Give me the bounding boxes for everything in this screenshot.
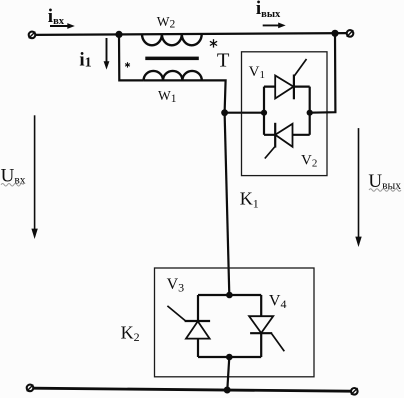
node C junction dot [221, 109, 228, 116]
thyristor V1 [275, 59, 306, 99]
wire K1 loop right vertical [309, 87, 311, 135]
node dot bottom rail [224, 387, 231, 394]
transformer core T [145, 57, 199, 61]
wire K2 loop left vertical [197, 295, 199, 357]
wire K1 loop right to top rail [310, 33, 336, 113]
terminal X4 bottom-right [351, 388, 358, 395]
thyristor V4 [249, 316, 284, 351]
terminal X2 top-right [347, 30, 354, 37]
winding w1 [144, 71, 202, 81]
node B junction dot [331, 30, 338, 37]
wire top rail [36, 33, 347, 35]
wire K1 loop bottom branch [264, 134, 310, 136]
current arrow i_vyx [263, 23, 286, 29]
wire K2 loop bottom branch [198, 356, 261, 358]
node dot K1 loop left [261, 110, 267, 116]
voltage arrow U_vyx [355, 128, 361, 247]
svg-text:T: T [217, 49, 230, 71]
wire mid vertical C to K2 [225, 113, 230, 295]
wire left vertical to w1 [119, 34, 144, 80]
squiggle under U_vyx [369, 189, 401, 192]
wire bottom rail [34, 388, 351, 391]
node dot K2 bottom [226, 354, 233, 361]
squiggle under U_vx [1, 184, 23, 187]
terminal X1 top-left [29, 32, 36, 39]
wire K1 loop top branch [264, 85, 310, 87]
wire K1 loop left vertical [263, 87, 265, 135]
current arrow i1 [104, 38, 110, 70]
wire K2 loop right vertical [260, 295, 262, 357]
polarity star top (w2) [210, 39, 217, 47]
current arrow i_vx [50, 23, 75, 29]
node dot K1 loop right [307, 110, 313, 116]
wire K2 to bottom rail [227, 357, 229, 390]
node dot K2 top [226, 292, 233, 299]
box K1 [242, 52, 328, 176]
winding w2 [142, 34, 202, 45]
voltage arrow U_vx [31, 115, 37, 239]
thyristor V3 [167, 306, 210, 339]
polarity star left (w1) [125, 62, 130, 67]
terminal X3 bottom-left [27, 385, 34, 392]
node A junction dot [115, 31, 122, 38]
thyristor V2 [265, 123, 293, 159]
wire w1 right lead [144, 80, 226, 112]
wire K2 loop top branch [198, 294, 261, 296]
box K2 [155, 268, 315, 377]
wire node C to K1 loop [225, 112, 264, 114]
